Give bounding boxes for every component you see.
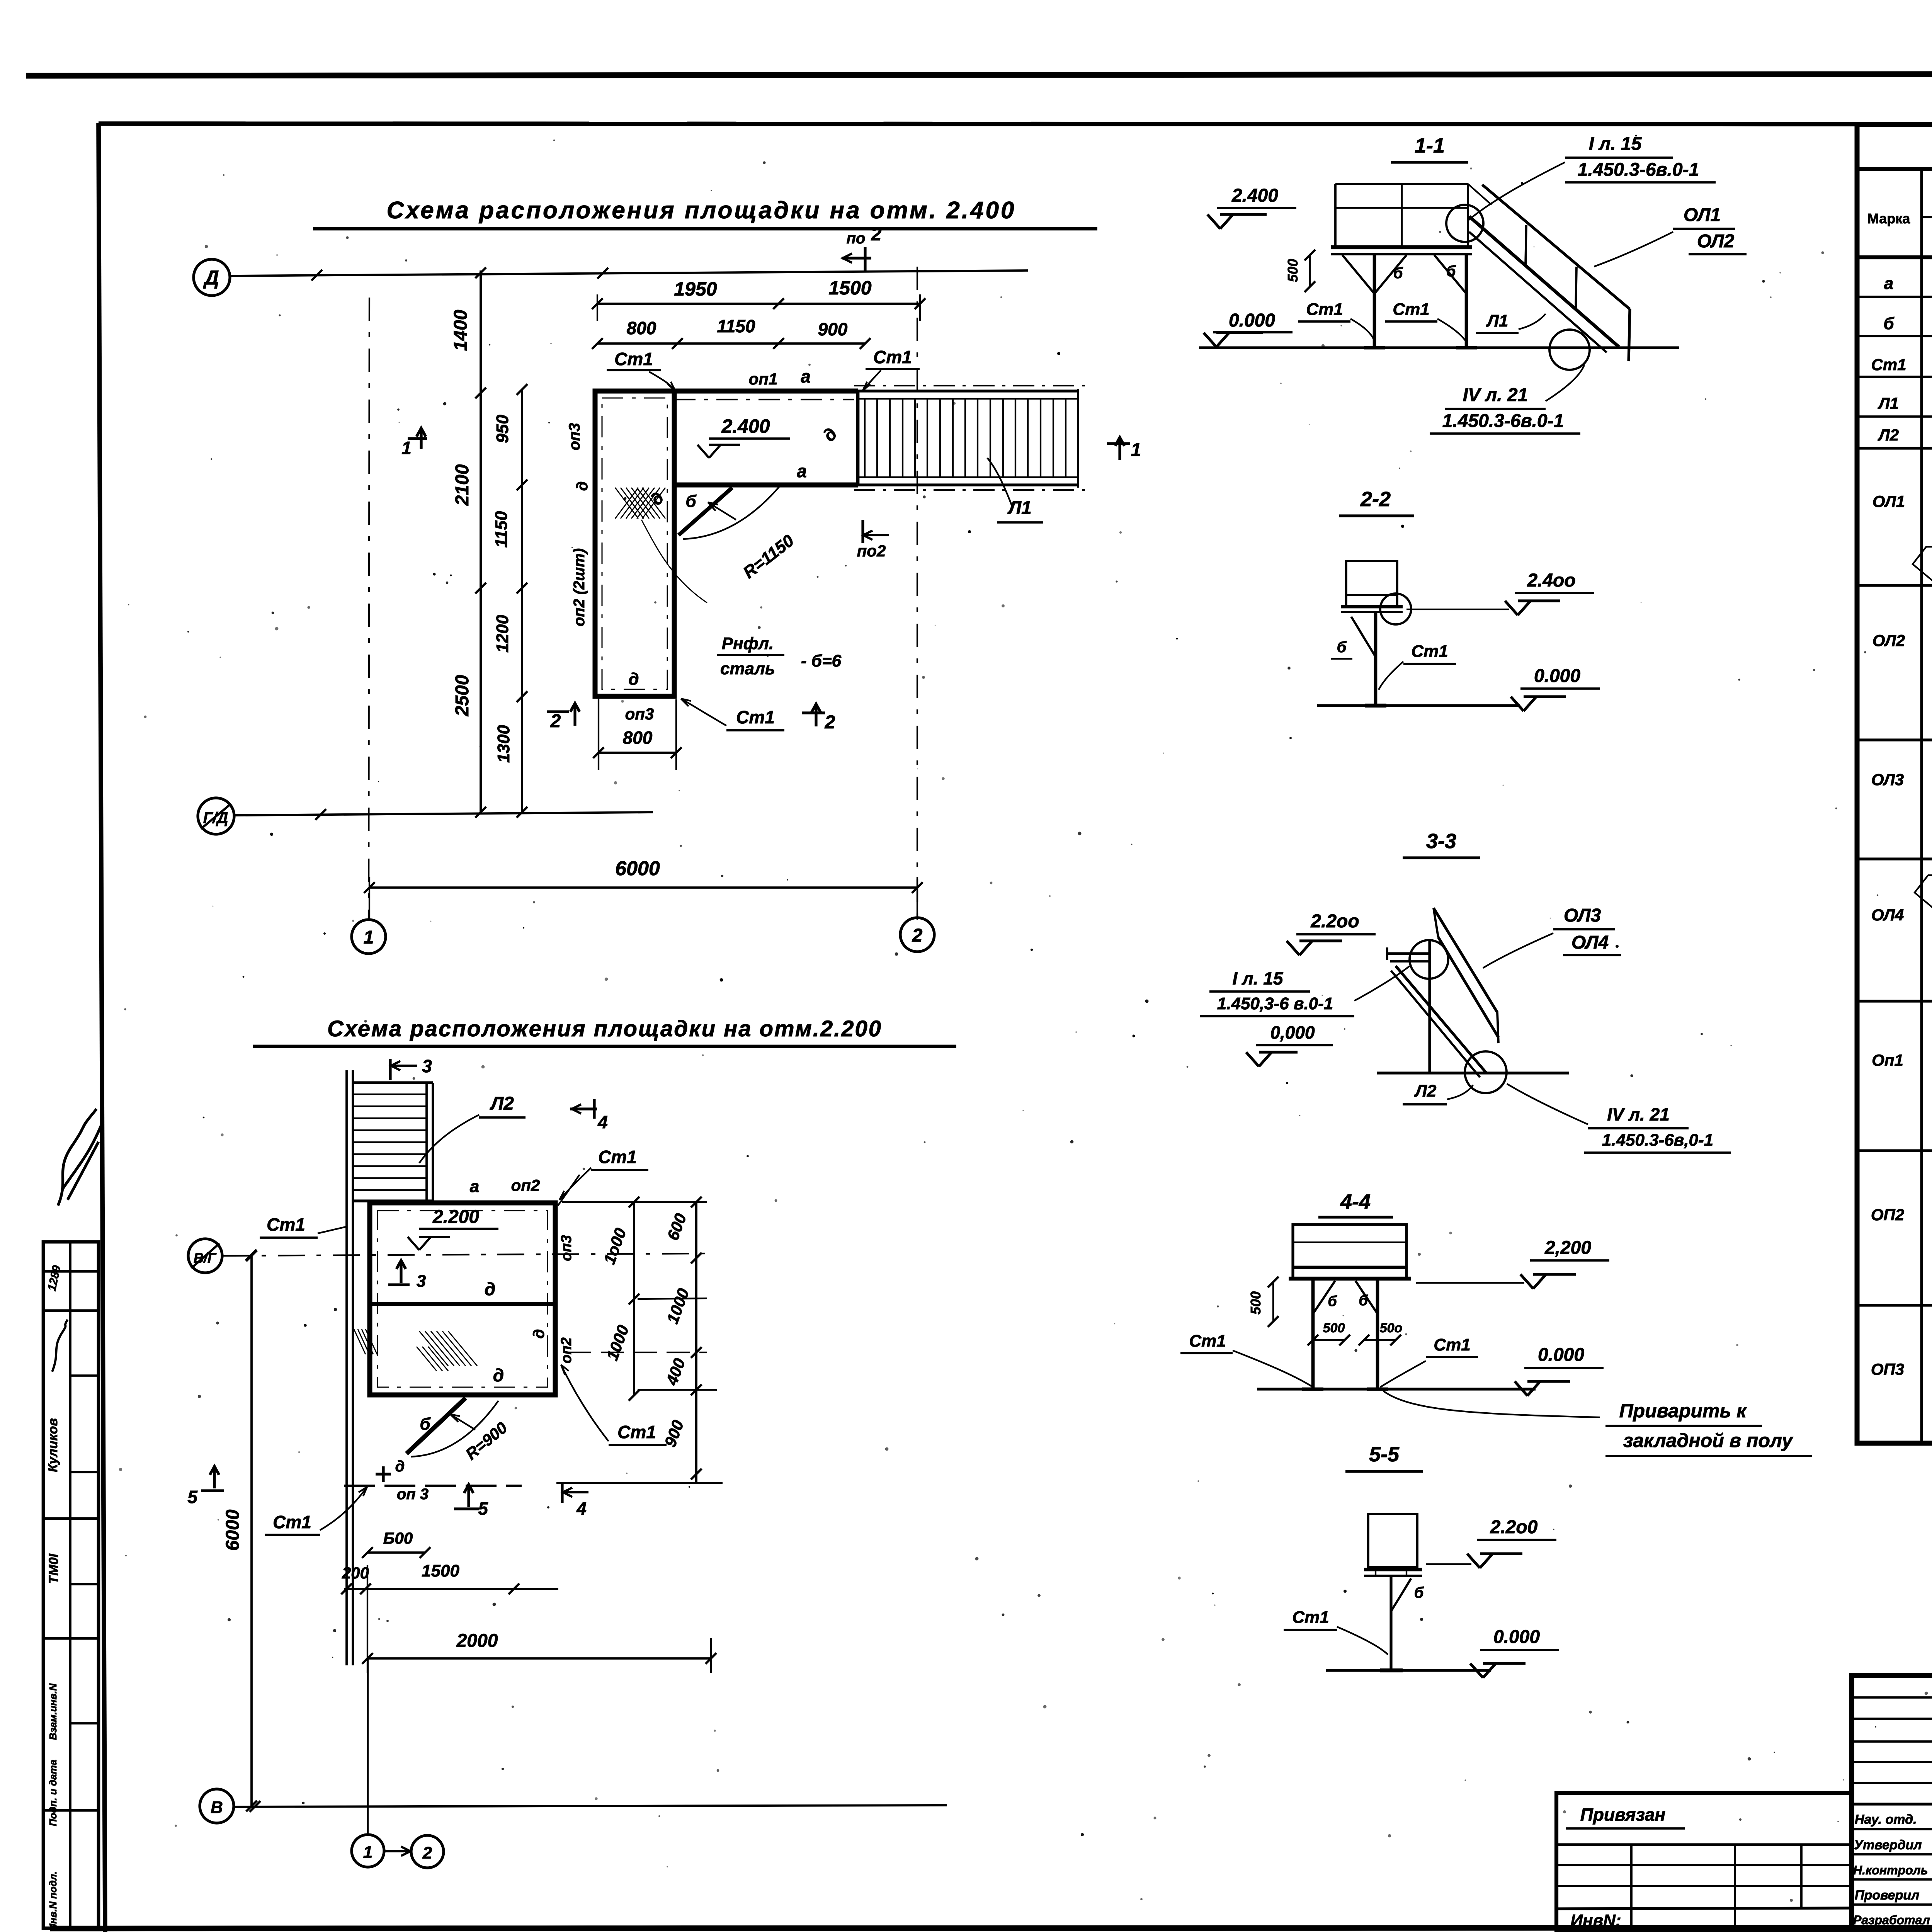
platform 2.400 horizontal wing outline (674, 389, 858, 394)
svg-text:4: 4 (576, 1498, 587, 1519)
svg-text:500: 500 (1285, 259, 1301, 282)
svg-text:Л2: Л2 (1878, 426, 1899, 444)
margin stamp signature (52, 1320, 68, 1372)
platform 2.400 vertical wing inner dashdot (602, 398, 667, 689)
svg-text:оп2: оп2 (558, 1337, 575, 1364)
svg-text:2: 2 (825, 712, 835, 733)
svg-text:0.000: 0.000 (1534, 666, 1580, 686)
hatch patch plan 2200 (417, 1331, 477, 1371)
leader from hatch to note (641, 520, 707, 603)
margin stamp table (43, 1242, 99, 1928)
svg-text:0.000: 0.000 (1538, 1345, 1584, 1365)
svg-text:Л1: Л1 (1486, 311, 1509, 330)
svg-text:оп2 (2шт): оп2 (2шт) (571, 548, 588, 626)
radius arc R=900 plan 2200 (411, 1401, 498, 1457)
svg-text:500: 500 (1248, 1291, 1264, 1315)
svg-text:Ст1: Ст1 (1434, 1335, 1470, 1354)
stairs Л1 plan (858, 389, 1078, 392)
svg-text:закладной в полу: закладной в полу (1623, 1430, 1794, 1451)
svg-text:Рнфл.: Рнфл. (722, 634, 774, 653)
axis circle Д (194, 259, 230, 296)
svg-text:1300: 1300 (494, 725, 513, 763)
svg-text:д: д (493, 1365, 504, 1385)
dim chain 1400-2100-2500 (480, 270, 482, 812)
element table outer frame (1857, 124, 1932, 1443)
svg-text:Б00: Б00 (383, 1529, 413, 1547)
svg-text:д: д (574, 481, 591, 491)
ground line 1-1 (1199, 346, 1679, 349)
svg-text:2.2о0: 2.2о0 (1490, 1517, 1538, 1537)
svg-text:д: д (628, 670, 639, 689)
svg-text:1.450.3-6в,0-1: 1.450.3-6в,0-1 (1602, 1131, 1713, 1150)
svg-text:Схема расположения площадки: Схема расположения площадки на отм.2.200 (327, 1016, 882, 1041)
detail circle bottom 3-3 (1465, 1051, 1507, 1093)
svg-text:Проверил: Проверил (1855, 1888, 1919, 1903)
svg-text:1: 1 (363, 1843, 372, 1862)
axis circle Г/Д (198, 798, 234, 834)
svg-text:ОЛ1: ОЛ1 (1872, 492, 1905, 510)
svg-text:1950: 1950 (674, 278, 717, 300)
platform 2.200 inner dashdot (378, 1211, 548, 1387)
svg-text:2000: 2000 (456, 1631, 498, 1651)
svg-text:а: а (801, 366, 811, 386)
svg-text:2500: 2500 (452, 675, 473, 716)
column 5-5 (1389, 1576, 1392, 1670)
svg-text:Ст1: Ст1 (617, 1422, 656, 1442)
axis line Г/Д (235, 812, 653, 815)
svg-text:1.450.3-6в.0-1: 1.450.3-6в.0-1 (1578, 160, 1699, 180)
svg-text:по2: по2 (857, 542, 886, 560)
section marker по2 top (864, 247, 866, 270)
svg-text:1400: 1400 (451, 310, 471, 351)
platform deck 1-1 (1335, 183, 1468, 185)
svg-text:Д: Д (203, 267, 219, 289)
svg-text:2.2оо: 2.2оо (1310, 911, 1359, 932)
stairs dashdot rails (854, 385, 1086, 386)
axis circles 1 and 2 bottom (352, 1835, 384, 1867)
stair stringer 3-3 (1396, 966, 1486, 1073)
axis 2 vertical line (917, 267, 918, 918)
svg-text:Ст1: Ст1 (598, 1147, 637, 1167)
axis circle В/Г (188, 1239, 222, 1273)
svg-text:0.000: 0.000 (1493, 1627, 1540, 1647)
svg-text:Л1: Л1 (1878, 394, 1899, 412)
axis circle 1 (352, 920, 386, 954)
svg-text:50о: 50о (1380, 1321, 1403, 1335)
legs 4-4 (1311, 1279, 1315, 1389)
platform 2.200 outline (370, 1203, 555, 1395)
dim chain 950-1150-1200-1300 (521, 389, 523, 812)
column cap box 5-5 (1368, 1514, 1417, 1567)
stairs Л2 plan (353, 1081, 433, 1084)
svg-text:2.200: 2.200 (432, 1207, 479, 1227)
svg-text:IV л. 21: IV л. 21 (1607, 1104, 1670, 1124)
svg-text:Л1: Л1 (1007, 498, 1032, 518)
axis line В (235, 1805, 947, 1807)
svg-text:2: 2 (550, 711, 561, 731)
svg-text:3-3: 3-3 (1426, 830, 1456, 853)
rail post 3-3 (1428, 939, 1431, 1073)
right dim chain 600+1000+400+900 at x=1802 (695, 1202, 697, 1483)
railing panel 3-3 (1434, 908, 1497, 1012)
svg-text:1150: 1150 (717, 316, 755, 336)
svg-text:ОЛ1: ОЛ1 (1684, 205, 1721, 225)
svg-text:ОЛ2: ОЛ2 (1872, 631, 1905, 650)
title block outer frame (1852, 1675, 1932, 1930)
svg-text:ИнвN:: ИнвN: (1570, 1911, 1621, 1930)
svg-text:Приварить к: Приварить к (1619, 1400, 1748, 1422)
svg-text:900: 900 (818, 319, 848, 339)
title block narrow revision rows (1852, 1696, 1932, 1699)
svg-text:сталь: сталь (720, 659, 775, 678)
svg-text:Ст1: Ст1 (614, 349, 653, 369)
svg-text:2.4оо: 2.4оо (1527, 570, 1575, 591)
stair stringer 1-1 (1469, 216, 1619, 347)
svg-text:ОЛ3: ОЛ3 (1564, 905, 1601, 926)
detail circle bottom 1-1 (1549, 330, 1590, 370)
bottom dim 2000 plan 2200 (367, 1657, 711, 1660)
table block boundary lines (1857, 584, 1932, 587)
svg-text:а: а (797, 461, 807, 481)
svg-text:Разработал: Разработал (1853, 1913, 1930, 1927)
cap plate 2-2 (1341, 605, 1403, 609)
section marker 1 right of stairs (1107, 442, 1130, 445)
right leg 1-1 (1465, 254, 1468, 348)
hatch patch plan 2400 (615, 488, 665, 519)
svg-text:1: 1 (1131, 440, 1141, 460)
svg-text:Инв.N подл.: Инв.N подл. (47, 1871, 59, 1931)
section marker 5 bottom (454, 1507, 479, 1510)
svg-text:Привязан: Привязан (1580, 1804, 1665, 1825)
corner angle д bottom-left of plan 2200 (376, 1466, 391, 1482)
svg-text:Ст1: Ст1 (267, 1214, 305, 1235)
diagonal brace plan 2400 (679, 488, 732, 535)
detail circle top 3-3 (1410, 940, 1448, 979)
svg-text:б: б (1414, 1584, 1424, 1601)
element table title row (1857, 167, 1932, 171)
braces б 4-4 (1313, 1281, 1335, 1314)
svg-text:2100: 2100 (452, 464, 473, 506)
right dim chain 1000+1000 at x=1641 (633, 1202, 635, 1395)
section marker 1 left (408, 437, 427, 440)
svg-text:0.000: 0.000 (1229, 310, 1275, 331)
svg-text:1500: 1500 (422, 1561, 459, 1580)
svg-text:по: по (847, 230, 866, 247)
svg-text:5-5: 5-5 (1369, 1443, 1400, 1466)
svg-text:Л2: Л2 (490, 1094, 514, 1114)
axis circle 2 (900, 918, 934, 952)
element table header band (1857, 255, 1932, 259)
axis 1 vertical line (369, 298, 369, 920)
svg-text:Подп. и дата: Подп. и дата (47, 1760, 59, 1826)
svg-text:5: 5 (187, 1487, 198, 1507)
svg-text:Марка: Марка (1867, 211, 1910, 226)
svg-text:оп2: оп2 (511, 1176, 540, 1194)
axis line Д (230, 270, 1028, 276)
svg-text:б: б (1337, 639, 1347, 656)
svg-text:1200: 1200 (493, 615, 512, 653)
svg-text:2: 2 (912, 925, 923, 946)
page top border line (26, 73, 1932, 76)
bottom dims 200 1500 plan 2200 (344, 1588, 558, 1590)
section marker 4 top-right (570, 1107, 597, 1110)
braces б section 1-1 (1374, 255, 1406, 294)
section marker 3 top (389, 1059, 391, 1080)
svg-text:Ст1: Ст1 (1411, 642, 1448, 661)
section marker 4 bottom (561, 1483, 563, 1503)
page bottom border line (50, 1927, 1932, 1929)
svg-text:Куликов: Куликов (46, 1418, 60, 1472)
stringer connection T 3-3 (1387, 952, 1430, 955)
svg-text:Схема расположения площадки на: Схема расположения площадки на отм. 2.40… (387, 197, 1016, 224)
callout Ст1 top-right leader (558, 1175, 580, 1206)
svg-text:I л. 15: I л. 15 (1233, 968, 1284, 988)
svg-text:Л2: Л2 (1414, 1082, 1437, 1100)
svg-text:950: 950 (493, 415, 512, 443)
svg-text:1.450.3-6в.0-1: 1.450.3-6в.0-1 (1442, 411, 1564, 431)
platform 2.200 mid line (370, 1302, 555, 1306)
deck plate 4-4 (1289, 1277, 1411, 1281)
svg-text:2-2: 2-2 (1360, 488, 1391, 511)
axis line В/Г (223, 1253, 707, 1256)
section marker 3 inside platform (388, 1283, 410, 1286)
svg-text:оп3: оп3 (625, 705, 654, 723)
dimension 800+1150+900 (597, 342, 865, 345)
svg-text:800: 800 (627, 318, 656, 338)
axis circle В bottom (200, 1789, 234, 1823)
svg-text:Ст1: Ст1 (873, 347, 912, 367)
margin signature flourish (58, 1109, 102, 1206)
svg-text:оп1: оп1 (749, 370, 778, 388)
svg-text:б: б (1883, 314, 1895, 333)
svg-text:б: б (1446, 263, 1456, 280)
svg-text:а: а (1884, 274, 1893, 293)
title block signature rows (1852, 1828, 1932, 1830)
platform 2.400 vertical wing outline (595, 391, 674, 696)
svg-text:б: б (420, 1415, 431, 1434)
svg-text:I л. 15: I л. 15 (1589, 134, 1642, 154)
weld detail circle 2-2 (1380, 594, 1411, 624)
svg-text:б: б (1393, 265, 1403, 282)
svg-text:200: 200 (342, 1564, 369, 1582)
cap plate 5-5 (1364, 1568, 1422, 1571)
svg-text:д: д (485, 1279, 495, 1299)
brace б 5-5 (1391, 1578, 1411, 1611)
svg-text:2,200: 2,200 (1544, 1238, 1591, 1258)
svg-text:б: б (1328, 1293, 1337, 1310)
inner frame top border (99, 124, 1932, 124)
svg-text:ОЛ4: ОЛ4 (1871, 906, 1904, 924)
svg-text:д: д (531, 1329, 548, 1339)
svg-text:Ст1: Ст1 (1871, 355, 1906, 374)
small hatch on wall 2200 (354, 1329, 377, 1354)
column 2-2 (1374, 612, 1378, 706)
privyazan table (1556, 1793, 1852, 1932)
table single rows lines (1857, 296, 1932, 298)
svg-text:Оп1: Оп1 (1872, 1051, 1903, 1069)
svg-text:ОП2: ОП2 (1871, 1206, 1904, 1224)
svg-text:ТМ0I: ТМ0I (46, 1553, 61, 1584)
ground line 2-2 (1317, 704, 1520, 707)
svg-text:IV л. 21: IV л. 21 (1463, 385, 1528, 405)
svg-text:В: В (211, 1798, 223, 1817)
svg-text:2: 2 (422, 1844, 432, 1862)
svg-text:оп3: оп3 (558, 1235, 575, 1261)
stair rail 1-1 (1482, 185, 1630, 309)
svg-text:1: 1 (401, 438, 412, 458)
svg-text:Ст1: Ст1 (1189, 1332, 1226, 1350)
svg-text:- б=6: - б=6 (801, 651, 842, 670)
svg-text:б: б (685, 492, 697, 511)
svg-text:Ст1: Ст1 (273, 1512, 311, 1532)
detail circle top 1-1 (1446, 205, 1483, 242)
svg-text:Утвердил: Утвердил (1854, 1838, 1922, 1852)
svg-text:1-1: 1-1 (1415, 134, 1445, 157)
svg-text:ОЛ3: ОЛ3 (1871, 770, 1904, 789)
dimension 6000 bottom of plan 2400 (369, 886, 917, 889)
svg-text:1: 1 (364, 927, 374, 948)
svg-text:1.450,3-6 в.0-1: 1.450,3-6 в.0-1 (1217, 994, 1333, 1013)
wall line plan 2200 (345, 1070, 348, 1665)
svg-text:2.400: 2.400 (1231, 185, 1278, 206)
svg-text:д: д (395, 1458, 405, 1475)
svg-text:а: а (470, 1177, 479, 1196)
svg-text:Нау. отд.: Нау. отд. (1855, 1812, 1917, 1827)
svg-text:500: 500 (1323, 1321, 1345, 1335)
vertical dim 6000 left 2200 (250, 1256, 253, 1806)
svg-text:2: 2 (871, 224, 882, 245)
radius arc R=1150 (683, 486, 780, 539)
svg-text:800: 800 (623, 728, 653, 748)
svg-text:3: 3 (417, 1272, 426, 1291)
platform bottom edge line 2200 (344, 1485, 522, 1487)
section marker 2 bottom-right (802, 711, 825, 714)
svg-text:ОЛ2: ОЛ2 (1697, 231, 1735, 252)
ground line 3-3 (1377, 1071, 1569, 1074)
platform 2.400 horizontal wing dashdot (674, 399, 854, 400)
svg-text:б: б (1359, 1293, 1368, 1309)
diagonal brace plan 2200 (406, 1398, 466, 1454)
svg-text:1150: 1150 (492, 511, 511, 548)
svg-text:6000: 6000 (615, 857, 660, 880)
svg-text:Ст1: Ст1 (1306, 300, 1343, 319)
svg-text:0,000: 0,000 (1270, 1022, 1315, 1043)
ground line 4-4 (1257, 1388, 1536, 1390)
svg-text:5: 5 (478, 1498, 488, 1519)
column cap box 2-2 (1346, 561, 1397, 607)
platform deck 4-4 (1293, 1225, 1406, 1279)
svg-text:1500: 1500 (828, 277, 871, 299)
svg-text:6000: 6000 (223, 1509, 243, 1551)
svg-text:Ст1: Ст1 (736, 707, 775, 727)
dimension 800 bottom (599, 752, 676, 754)
svg-text:3: 3 (422, 1056, 432, 1076)
svg-text:Взам.инв.N: Взам.инв.N (47, 1683, 59, 1740)
svg-text:2.400: 2.400 (721, 415, 770, 437)
svg-text:Ст1: Ст1 (1393, 300, 1429, 319)
svg-text:Ст1: Ст1 (1292, 1608, 1329, 1627)
brace б 2-2 (1351, 617, 1376, 657)
inner frame left border (99, 123, 105, 1932)
svg-text:оп 3: оп 3 (397, 1486, 429, 1503)
svg-text:оп3: оп3 (566, 423, 583, 450)
svg-text:Н.контроль: Н.контроль (1853, 1863, 1928, 1877)
svg-text:ОЛ4: ОЛ4 (1571, 932, 1609, 953)
svg-text:ОП3: ОП3 (1871, 1360, 1904, 1378)
ground line 5-5 (1326, 1669, 1491, 1672)
deck plate double line (1331, 245, 1472, 249)
section marker по2 bottom (861, 520, 864, 543)
dimension 1950+1500 (597, 303, 920, 305)
svg-text:4-4: 4-4 (1340, 1190, 1371, 1213)
svg-text:4: 4 (597, 1112, 608, 1132)
arrow between circles 1 2 (385, 1850, 410, 1852)
left leg 1-1 (1373, 254, 1376, 348)
